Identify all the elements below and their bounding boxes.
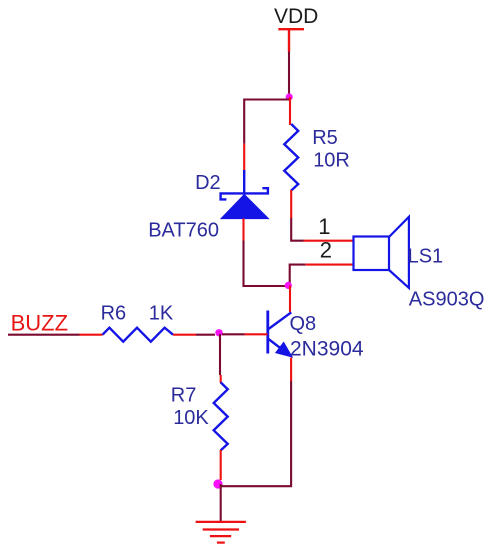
wire R7 bottom to node D (220, 450, 222, 480)
svg-text:LS1: LS1 (408, 245, 444, 267)
wire Q8 emitter down (290, 358, 292, 382)
wire BUZZ to R6 (8, 334, 80, 336)
wire emitter to node D (221, 381, 291, 486)
svg-text:R5: R5 (312, 127, 338, 149)
wire node A to R5 (289, 97, 291, 125)
svg-text:1K: 1K (149, 303, 174, 325)
wire R5 bottom (290, 190, 292, 218)
resistor R5 (284, 124, 298, 191)
wire node B to Q8 collector (289, 286, 291, 313)
resistor R7 (214, 382, 228, 450)
svg-text:10K: 10K (173, 407, 209, 429)
wire stub to Q8 base (245, 333, 268, 335)
wire into node C (196, 334, 215, 336)
svg-text:R7: R7 (171, 384, 197, 406)
wire pin 2 to node B (290, 265, 306, 286)
wire D2 anode down (242, 219, 244, 241)
node C junction dot (215, 329, 222, 336)
svg-text:BUZZ: BUZZ (11, 310, 68, 335)
svg-text:AS903Q: AS903Q (409, 289, 485, 311)
wire stub to D2 top (243, 144, 245, 171)
transistor Q8 emitter arrow (276, 343, 291, 357)
svg-text:2: 2 (320, 238, 332, 263)
wire LS1 pin 2 (305, 264, 353, 266)
svg-text:1: 1 (318, 214, 330, 239)
node A junction dot (286, 93, 293, 100)
transistor Q8 (268, 311, 292, 356)
power symbol VDD bar (278, 28, 304, 52)
svg-text:R6: R6 (101, 303, 127, 325)
wire R5 to LS1 pin 1 (291, 218, 303, 241)
diode D2 triangle (221, 195, 269, 219)
wire node C down to R7 (219, 334, 221, 375)
svg-text:2N3904: 2N3904 (290, 338, 364, 361)
wire node D to ground (220, 484, 222, 522)
resistor R6 (103, 328, 174, 342)
wire node A branch to D2 (244, 100, 289, 144)
wire node C to Q8 base (222, 333, 245, 335)
svg-text:Q8: Q8 (290, 313, 317, 335)
node B junction dot (285, 282, 292, 289)
wire VDD to node A (288, 52, 290, 98)
wire D2 to node B (244, 241, 289, 287)
wire stub to R6 left (80, 334, 103, 336)
svg-text:10R: 10R (313, 150, 350, 172)
node D junction dot (213, 479, 222, 488)
ground (196, 522, 246, 543)
svg-text:VDD: VDD (274, 5, 318, 28)
speaker LS1 (354, 217, 409, 288)
svg-text:D2: D2 (195, 172, 221, 194)
wire R6 to node C (173, 334, 196, 336)
wire stub to R7 top (220, 375, 222, 383)
wire LS1 pin 1 (304, 240, 354, 242)
svg-text:BAT760: BAT760 (148, 219, 219, 241)
diode D2 schottky symbol (221, 170, 268, 199)
